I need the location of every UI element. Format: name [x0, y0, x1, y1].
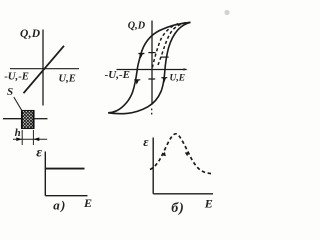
horizontal axis (panel a) — [10, 68, 79, 70]
svg-text:U,E: U,E — [59, 74, 76, 85]
svg-text:E: E — [83, 196, 92, 210]
faint scan smudge top right — [224, 10, 229, 15]
horizontal axis (panel b) — [117, 69, 187, 71]
vertical axis (panel b) — [151, 21, 153, 105]
permittivity peak curve (dashed bell) — [150, 134, 211, 174]
wire right of sample — [34, 118, 48, 120]
vertical axis (panel a) — [42, 30, 44, 106]
svg-text:а): а) — [53, 198, 66, 213]
svg-text:h: h — [15, 127, 21, 139]
vertical axis (panel b lower) — [152, 138, 154, 194]
svg-text:S: S — [7, 86, 13, 98]
svg-text:ε: ε — [36, 146, 42, 161]
thick right electrode edge — [33, 110, 35, 129]
dimension extension line left — [21, 130, 23, 145]
svg-text:-U,-E: -U,-E — [4, 71, 29, 83]
arrow mark on lower branch below axis — [161, 78, 167, 82]
svg-text:U,E: U,E — [170, 74, 186, 84]
svg-text:Q,D: Q,D — [128, 20, 146, 31]
arrow mark on falling side of bell — [185, 152, 189, 156]
arrow mark on rising side of bell — [162, 152, 166, 156]
linear characteristic line (panel a) — [24, 46, 65, 93]
dimension extension line right — [32, 130, 34, 145]
thick left electrode edge — [21, 110, 23, 129]
dimension line for h — [13, 138, 47, 140]
svg-text:Q,D: Q,D — [20, 28, 41, 40]
svg-text:ε: ε — [143, 134, 149, 149]
pointer line from S to sample — [14, 97, 22, 111]
vertical axis (panel a lower) — [44, 152, 46, 196]
svg-text:б): б) — [171, 201, 184, 216]
vertical axis dotted tail (panel b) — [151, 109, 153, 115]
svg-text:-U,-E: -U,-E — [105, 69, 130, 81]
sample crystal plate (crosshatched) — [22, 111, 35, 129]
horizontal axis (panel a lower) — [45, 195, 87, 197]
hysteresis loop upper branch — [108, 22, 190, 113]
dimension arrowhead left — [16, 137, 22, 141]
svg-text:E: E — [204, 197, 213, 211]
tick on vertical axis (+Qr) — [148, 52, 155, 54]
wire left of sample — [3, 118, 22, 120]
constant permittivity line (panel a lower) — [45, 168, 84, 170]
dimension arrowhead right — [33, 137, 39, 141]
arrow mark on right branch above axis — [161, 56, 169, 58]
initial polarization curve (dashed, near axis) — [152, 24, 178, 68]
arrow mark on left branch above axis — [138, 54, 144, 57]
hysteresis loop lower branch — [108, 22, 190, 113]
tick on vertical axis (-Qr) — [148, 78, 155, 80]
horizontal axis (panel b lower) — [153, 193, 213, 195]
second dashed polarization curve — [158, 23, 186, 65]
axis arrow tip (panel b) — [184, 68, 188, 70]
arrow mark on left branch below axis — [134, 80, 140, 83]
